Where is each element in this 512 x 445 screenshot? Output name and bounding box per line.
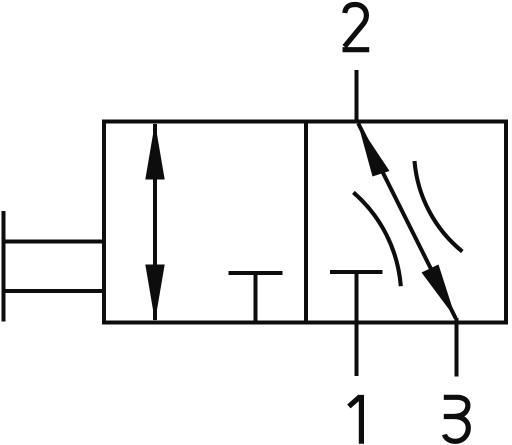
flow path diagonal shaft: [358, 123, 456, 318]
label 1: [349, 395, 362, 444]
down arrowhead (left box): [145, 265, 164, 322]
port 3 line: [455, 318, 459, 377]
blocked port T stem (left box): [254, 273, 258, 323]
plunger actuator lower rod: [2, 289, 106, 293]
right curved exhaust arc: [415, 161, 463, 252]
double arrow shaft (left box): [153, 124, 157, 320]
diagonal arrowhead toward port 3: [422, 265, 456, 319]
valve position divider: [304, 122, 308, 323]
label 3: [444, 397, 469, 441]
diagonal arrowhead toward port 2: [358, 124, 390, 177]
blocked port T crossbar (right box): [330, 270, 383, 274]
port 1 line with T stem: [355, 272, 359, 376]
port 2 line: [355, 70, 359, 123]
blocked port T crossbar (left box): [229, 271, 283, 275]
up arrowhead (left box): [145, 123, 164, 180]
valve body outer rectangle: [104, 122, 506, 323]
plunger actuator upper rod: [2, 240, 106, 244]
label 2: [343, 5, 370, 50]
plunger actuator end plate: [2, 211, 6, 322]
left curved exhaust arc: [353, 192, 400, 286]
